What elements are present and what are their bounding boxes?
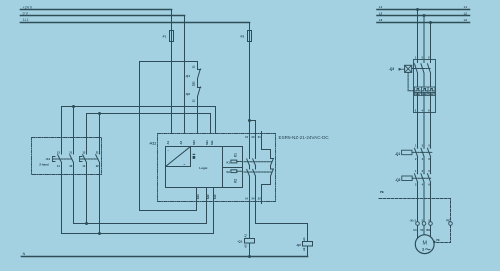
mech link handle to contacts — [412, 68, 430, 70]
terminal PE — [449, 222, 453, 226]
wire coil Q2 to N — [307, 246, 309, 257]
mech link Q1 — [412, 151, 432, 153]
node S22 junction — [85, 222, 88, 225]
wire phase 3 in breaker — [430, 93, 432, 113]
node L1 tap — [416, 8, 419, 11]
svg-text:-S1: -S1 — [45, 157, 50, 161]
coil box divider — [223, 167, 243, 169]
svg-text:-Q2: -Q2 — [395, 178, 401, 182]
trip label row — [415, 93, 436, 96]
svg-text:-K11: -K11 — [149, 141, 156, 145]
fuse F1 — [170, 31, 174, 42]
svg-text:+24 V: +24 V — [23, 5, 33, 9]
pin labels Q2 bottom — [415, 183, 430, 187]
wire coil Q1 to N — [249, 243, 251, 257]
node S11 junction — [72, 105, 75, 108]
node junction F2 branch — [248, 119, 251, 122]
bus L1 right — [377, 9, 470, 11]
breaker Q3 contact 3 — [428, 64, 431, 87]
pin labels Q1 bottom — [415, 157, 430, 161]
breaker Q3 contact 2 — [421, 64, 424, 87]
PE conductor — [379, 199, 451, 243]
svg-text:~: ~ — [167, 148, 169, 152]
svg-text:S21: S21 — [205, 140, 209, 145]
svg-text:S34: S34 — [196, 194, 200, 199]
wire S1 contact 1 — [61, 107, 63, 234]
svg-text:2-hand: 2-hand — [39, 163, 48, 167]
terminal X1:1 — [416, 222, 420, 226]
svg-text:K2: K2 — [233, 179, 237, 183]
actuator E button 2 — [80, 157, 83, 162]
wire S11 top loop — [62, 107, 216, 134]
svg-text:K1: K1 — [233, 153, 237, 157]
contact 13-14 wire — [249, 134, 251, 239]
svg-text:U1: U1 — [413, 228, 417, 232]
svg-text:A1: A1 — [302, 237, 306, 241]
wire branch to contact 23 — [250, 121, 256, 134]
wire F2 to contact 13 — [249, 42, 251, 134]
svg-text:A2: A2 — [179, 141, 183, 145]
svg-text:-X1:1: -X1:1 — [409, 218, 416, 222]
relay coil K2 — [231, 170, 237, 173]
contactor coil Q1 — [245, 239, 255, 244]
svg-text:=: = — [184, 162, 186, 166]
wire phase 2 in breaker — [423, 93, 425, 113]
contactor Q1 contact 3 — [428, 147, 432, 156]
svg-text:PE: PE — [380, 190, 384, 194]
node Q1 N junction — [248, 255, 251, 258]
node S12 junction — [98, 232, 101, 235]
contact 21-22 wire — [262, 132, 271, 204]
svg-text:-F2: -F2 — [240, 35, 245, 39]
svg-text:K2: K2 — [226, 170, 230, 174]
breaker Q3 contact 1 — [415, 64, 418, 87]
wire S1 contact 4 — [99, 114, 101, 234]
wire S1 contact 2 — [73, 107, 75, 224]
label PS marks — [193, 154, 196, 159]
contact S1-1 lever — [58, 155, 62, 163]
contact 13-14 lever row2 — [247, 169, 250, 176]
svg-text:-Q2: -Q2 — [185, 92, 190, 96]
svg-text:V1: V1 — [420, 228, 424, 232]
svg-text:3: 3 — [422, 247, 425, 252]
wire 24 to coil Q2 — [256, 224, 308, 242]
contact 21-22 lever row2 — [271, 169, 274, 176]
wire phase 2 drop — [423, 16, 425, 63]
svg-text:L3: L3 — [464, 18, 468, 22]
svg-text:A1: A1 — [166, 141, 170, 145]
node L2 tap — [423, 14, 426, 17]
wire phase 3 drop — [430, 23, 432, 63]
wire 1L1 to fuse F2 — [249, 23, 251, 31]
contactor Q2 contact 2 — [421, 173, 425, 182]
safety relay K11 dashed enclosure — [158, 134, 276, 202]
terminal X1:3 — [429, 222, 433, 226]
logic box U1 — [166, 147, 223, 188]
wire +24V to fuse F1 — [171, 10, 173, 31]
svg-text:-F1: -F1 — [162, 35, 167, 39]
wire S1 contact 3 — [86, 114, 88, 224]
breaker Q3 box — [414, 60, 436, 113]
thermal trip row — [415, 87, 436, 93]
fuse F2 — [248, 31, 252, 42]
actuator E button 1 — [53, 157, 56, 162]
wire 0V to A2 — [184, 16, 186, 134]
svg-text:1L1: 1L1 — [23, 18, 29, 22]
svg-text:L1: L1 — [464, 5, 468, 9]
contact Q2 NC feedback — [198, 87, 201, 134]
contactor Q1 contact 1 — [415, 147, 419, 156]
handle arrow link — [402, 68, 404, 70]
contact 21-22 NC bar row1 — [271, 158, 274, 160]
contactor Q2 operator — [402, 176, 412, 181]
mech link button 2 — [83, 158, 99, 160]
mech link K1 — [237, 161, 273, 163]
two-hand box S1 — [32, 138, 102, 175]
contact 21-22 NC bar row2 — [271, 168, 274, 170]
svg-text:PE: PE — [446, 218, 450, 222]
wire S12 bottom loop — [62, 188, 214, 234]
wire S34 pin — [196, 188, 198, 211]
contactor Q1 operator — [402, 150, 412, 155]
contactor coil Q2 — [303, 242, 313, 247]
mech link handle down — [408, 72, 414, 90]
svg-text:Logic: Logic — [199, 166, 207, 170]
node S21 junction — [98, 112, 101, 115]
relay coil K1 — [231, 160, 237, 163]
svg-text:S11: S11 — [210, 140, 214, 145]
svg-text:A2: A2 — [302, 247, 306, 251]
bus 1L1 — [21, 22, 250, 24]
breaker Q3 handle box — [405, 65, 412, 72]
contact 23-24 lever row1 — [253, 159, 256, 166]
wire Q2 to terminals — [418, 182, 431, 239]
wire feedback top — [140, 61, 198, 63]
wire feedback left loop — [139, 62, 141, 211]
contact 23-24 wire — [255, 134, 257, 224]
mech link button 1 — [56, 158, 73, 160]
motor M1 — [415, 235, 434, 254]
svg-text:N: N — [23, 252, 26, 256]
contactor Q2 contact 3 — [428, 173, 432, 182]
svg-text:S22: S22 — [206, 194, 210, 199]
mech link K2 — [237, 170, 273, 173]
svg-text:W1: W1 — [426, 228, 430, 232]
svg-text:PE: PE — [436, 238, 440, 242]
svg-text:-Q1: -Q1 — [185, 74, 190, 78]
contact Q1 NC feedback — [198, 62, 201, 88]
wire phase 1 in breaker — [417, 93, 419, 113]
wire breaker to Q1 contacts — [418, 113, 431, 148]
svg-text:0 V: 0 V — [23, 12, 29, 16]
coil box — [223, 147, 243, 188]
contactor Q2 contact 1 — [415, 173, 419, 182]
wire Q1 to Q2 contacts — [418, 157, 431, 174]
svg-text:-Q1: -Q1 — [395, 152, 401, 156]
bus N — [22, 256, 308, 258]
contact 23-24 lever row2 — [253, 169, 256, 176]
svg-text:M: M — [422, 240, 427, 246]
svg-text:-Q1: -Q1 — [237, 240, 242, 244]
svg-text:-Q3: -Q3 — [389, 67, 395, 71]
node PE motor — [433, 241, 435, 243]
power supply square — [166, 147, 191, 167]
mech link Q2 — [412, 177, 432, 179]
pin labels Q1 top — [415, 144, 430, 148]
svg-text:ESR5-NZ-21-24VAC-DC: ESR5-NZ-21-24VAC-DC — [279, 135, 330, 140]
contact 21-22 lever row1 — [271, 159, 274, 166]
wire S21 top loop — [87, 114, 211, 134]
svg-text:L2: L2 — [464, 11, 468, 15]
svg-text:S33: S33 — [192, 140, 196, 145]
bus L2 right — [377, 15, 470, 17]
svg-text:-Q2: -Q2 — [296, 243, 301, 247]
bus L3 right — [377, 22, 470, 24]
svg-text:A2: A2 — [244, 244, 248, 248]
contact S1-3 lever — [83, 155, 87, 163]
bus +24 V — [21, 9, 172, 11]
wire feedback bottom — [140, 210, 197, 212]
contactor Q1 contact 2 — [421, 147, 425, 156]
wire phase 1 drop — [417, 10, 419, 63]
svg-text:S12: S12 — [213, 194, 217, 199]
handle arrow — [399, 68, 403, 71]
terminal X1:2 — [422, 222, 426, 226]
bus 0 V — [21, 15, 185, 17]
svg-text:A1: A1 — [244, 234, 248, 238]
wire F1 to A1 — [171, 42, 173, 134]
contact 13-14 lever row1 — [247, 159, 250, 166]
svg-text:L3: L3 — [379, 18, 383, 22]
wire S22 bottom loop — [74, 188, 207, 224]
contact S1-2 lever — [70, 155, 74, 163]
node L3 tap — [429, 21, 432, 24]
svg-text:K1: K1 — [226, 160, 230, 164]
pin labels Q2 top — [415, 169, 430, 173]
svg-text:L1: L1 — [379, 5, 383, 9]
svg-text:L2: L2 — [379, 11, 383, 15]
contact S1-4 lever — [96, 155, 100, 163]
